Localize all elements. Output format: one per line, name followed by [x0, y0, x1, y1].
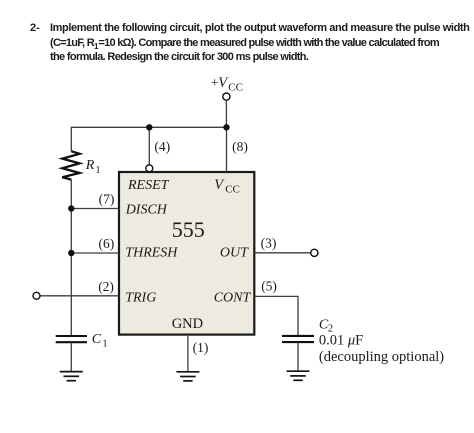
svg-text:CC: CC — [228, 82, 243, 94]
junction top rail / pin 4 — [146, 124, 152, 130]
junction left rail / THRESH — [68, 250, 74, 256]
svg-text:R: R — [85, 158, 95, 173]
ground below C1 — [60, 372, 83, 381]
svg-text:(decoupling optional): (decoupling optional) — [319, 349, 444, 365]
wire Vcc top rail and left rail down to R1 — [71, 127, 226, 151]
wire RESET pin 4 drop — [148, 127, 150, 165]
svg-text:0.01 μF: 0.01 μF — [319, 333, 363, 349]
svg-text:555: 555 — [172, 217, 205, 242]
svg-text:DISCH: DISCH — [125, 203, 168, 218]
svg-text:(6): (6) — [99, 236, 115, 251]
capacitor C1 — [56, 336, 87, 342]
svg-text:CONT: CONT — [214, 291, 252, 306]
svg-text:(3): (3) — [261, 236, 277, 251]
svg-text:(4): (4) — [154, 139, 170, 154]
wire CONT pin 5 to C2 — [254, 296, 298, 335]
wire left rail below R1 to C1 — [70, 180, 72, 335]
svg-text:CC: CC — [225, 184, 240, 196]
net label +VCC — [211, 75, 243, 94]
svg-text:(2): (2) — [98, 279, 114, 294]
svg-text:1: 1 — [95, 165, 100, 176]
svg-text:RESET: RESET — [127, 178, 170, 193]
value label R1 — [85, 158, 101, 176]
wire C2 to ground — [297, 342, 299, 371]
value label C1 — [92, 332, 108, 349]
svg-text:(8): (8) — [232, 139, 248, 154]
junction left rail / DISCH — [68, 205, 74, 211]
wire TRIG pin 2 — [40, 295, 119, 297]
svg-text:THRESH: THRESH — [125, 245, 178, 260]
svg-text:(1): (1) — [193, 340, 209, 355]
wire Vcc terminal drop — [225, 100, 227, 127]
wire THRESH pin 6 — [71, 252, 119, 254]
wire OUT pin 3 — [254, 252, 310, 254]
terminal RESET pin 4 open circle — [146, 165, 153, 172]
svg-text:TRIG: TRIG — [125, 291, 156, 306]
junction top rail / pin 8 — [223, 124, 229, 130]
terminal OUT open circle — [311, 249, 318, 256]
svg-text:GND: GND — [172, 316, 203, 332]
ground below GND pin — [176, 372, 199, 381]
svg-text:(7): (7) — [99, 191, 115, 206]
svg-text:C: C — [92, 332, 102, 347]
svg-text:1: 1 — [102, 339, 107, 350]
timer IC U1 555 body — [119, 172, 254, 335]
svg-text:(5): (5) — [261, 279, 277, 294]
wire C1 to ground — [70, 342, 72, 371]
terminal TRIG input open circle — [33, 292, 40, 299]
wire DISCH pin 7 — [71, 208, 119, 210]
svg-text:OUT: OUT — [220, 245, 249, 260]
wire GND pin 1 drop — [187, 335, 189, 372]
ground below C2 — [287, 371, 310, 380]
capacitor C2 — [282, 336, 314, 342]
value label C2 — [319, 317, 333, 334]
wire Vcc pin 8 drop — [226, 127, 228, 172]
resistor R1 — [62, 151, 79, 179]
terminal +Vcc open circle — [223, 93, 230, 100]
pin name VCC — [214, 177, 240, 196]
